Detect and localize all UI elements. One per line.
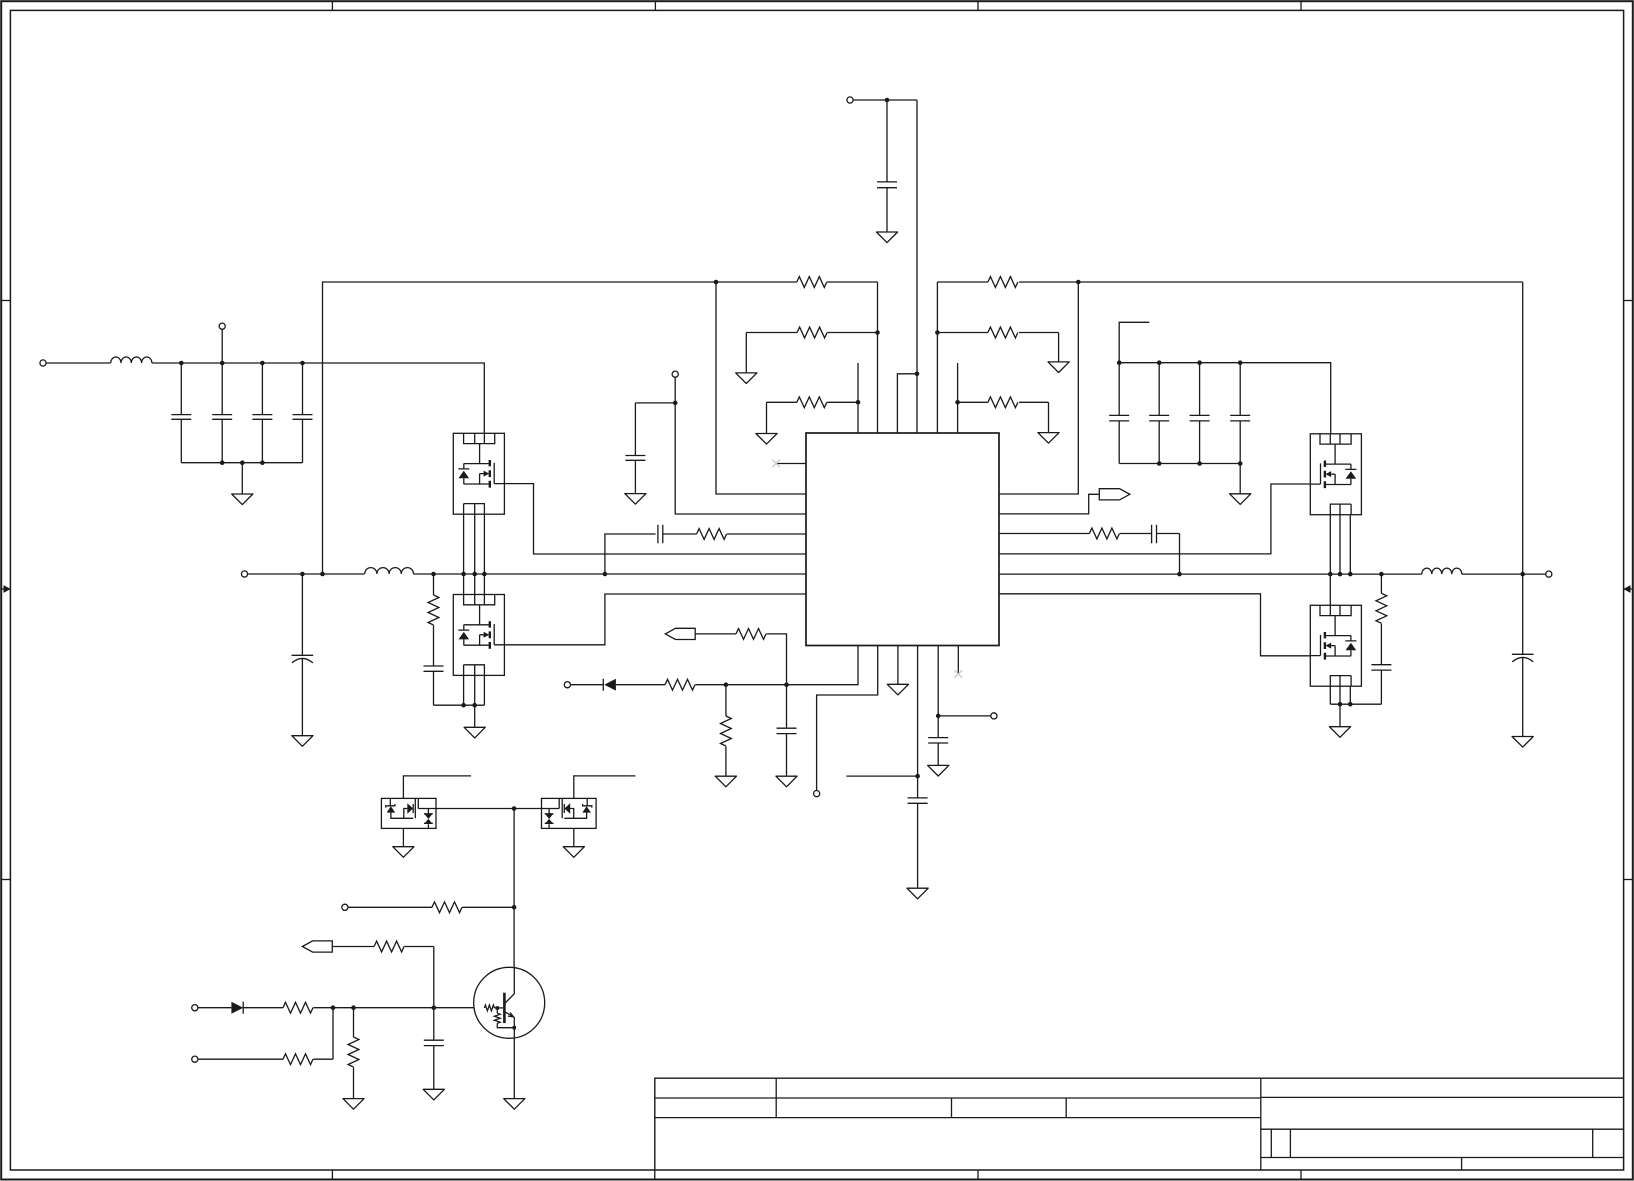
ground under R3 xyxy=(756,434,777,445)
capacitor C20 base xyxy=(424,1008,444,1090)
wire IC top pin 3 to VCC riser xyxy=(897,374,917,433)
no-connect X bottom xyxy=(955,670,963,677)
capacitor C4 xyxy=(252,363,272,463)
title block left rows xyxy=(655,1078,1261,1117)
wire C9 to ground xyxy=(634,460,636,493)
ground C20 xyxy=(423,1089,444,1100)
junction bank2 d xyxy=(1238,360,1243,365)
ground R10 xyxy=(715,776,736,787)
ground D3 xyxy=(563,847,584,858)
wire IC bottom pin 5 branch xyxy=(938,646,991,716)
wire C13 to bus xyxy=(1157,534,1180,575)
terminal P4 SW1 out xyxy=(241,571,247,577)
junction pin4 node xyxy=(915,774,920,779)
terminal P6 comp input xyxy=(564,682,570,688)
ground Q5 emitter xyxy=(504,1099,525,1110)
junction VIN C4 xyxy=(260,361,265,366)
capacitor C12 xyxy=(928,716,948,766)
terminal P7 xyxy=(814,791,820,797)
junction bus C7 xyxy=(300,572,305,577)
wire base line xyxy=(313,1007,474,1009)
border zone tick bottom 1 xyxy=(331,1170,333,1180)
wire Q2 source to ground xyxy=(474,705,476,727)
wire IC right pin PGOOD xyxy=(999,494,1099,514)
border center arrow left xyxy=(1,585,11,593)
junction VIN C5 xyxy=(300,361,305,366)
border zone tick left 1 xyxy=(1,300,10,302)
ground cap bank2 xyxy=(1230,494,1251,505)
ground under C1 xyxy=(876,232,897,243)
wire IC bottom pin 4 riser xyxy=(917,646,919,777)
wire C8 to R8 xyxy=(663,533,697,535)
wire IC bottom pin 3 ground stub xyxy=(897,646,899,685)
resistor R17 xyxy=(283,1054,313,1065)
junction Q2 source a xyxy=(461,703,466,708)
terminal P11 input a xyxy=(192,1005,198,1011)
ground under R2 xyxy=(736,373,757,384)
terminal P8 xyxy=(991,713,997,719)
junction gnd bus 2 xyxy=(240,460,245,465)
ground input caps xyxy=(232,494,253,505)
net flag PGOOD xyxy=(1099,489,1130,500)
wire IC comp2 xyxy=(999,533,1089,535)
junction bus Q1a xyxy=(461,572,466,577)
junction bank2 c xyxy=(1197,360,1202,365)
wire bank2 gnd drop xyxy=(1239,464,1241,494)
capacitor C7 output electrolytic phase1 xyxy=(292,574,314,736)
junction base a xyxy=(331,1005,336,1010)
terminal P2 VIN xyxy=(40,360,46,366)
border zone tick top 4 xyxy=(1300,1,1302,10)
diode D4 xyxy=(231,1002,243,1014)
wire Q1 source pins xyxy=(464,514,485,574)
wire D3 output rail xyxy=(514,808,541,810)
junction R2 right xyxy=(875,330,880,335)
wire phase1 output bus right xyxy=(414,573,807,575)
net flag ILIM xyxy=(665,628,695,639)
transistor Q4 low-side FET phase2 xyxy=(1310,605,1361,686)
wire R17 up to base xyxy=(313,1008,333,1059)
junction collector node xyxy=(512,905,517,910)
resistor R15 xyxy=(374,941,404,952)
resistor R16 xyxy=(283,1002,313,1013)
wire D1 to R9 xyxy=(616,684,665,686)
resistor R18 base pulldown xyxy=(348,1008,359,1099)
wire R14 to collector node xyxy=(462,906,514,908)
capacitor C2 xyxy=(171,363,191,463)
wire Q2 drain pins xyxy=(464,574,485,595)
wire phase2 bus xyxy=(999,573,1422,575)
ground Q4 source xyxy=(1329,727,1350,738)
terminal P9 VOUT2 xyxy=(1546,571,1552,577)
wire IC top pin 5 riser xyxy=(936,282,938,433)
wire R11 down to node xyxy=(766,634,786,685)
junction FB2 tap xyxy=(1076,280,1081,285)
inductor L2 xyxy=(365,568,414,574)
junction clamp node xyxy=(512,806,517,811)
op-amp U1 controller IC xyxy=(806,433,999,646)
capacitor C17 xyxy=(1230,363,1250,464)
ground Q2 source xyxy=(464,727,485,738)
wire FB1 tap to IC left pin xyxy=(716,282,806,494)
diode array D2 xyxy=(381,798,436,828)
wire D3 to ground xyxy=(573,828,575,846)
junction bus sense riser xyxy=(320,572,325,577)
capacitor C19 output electrolytic phase2 xyxy=(1512,574,1534,736)
junction bank2 a xyxy=(1117,360,1122,365)
wire IC bottom pin 2 branch xyxy=(817,646,878,791)
wire Q4 source pins xyxy=(1330,686,1350,704)
wire R6 row xyxy=(958,402,1049,432)
junction bus Q3b xyxy=(1338,572,1343,577)
ground under R5 xyxy=(1048,362,1069,373)
wire phase2 output xyxy=(1462,573,1546,575)
wire P3 to VIN bus xyxy=(221,329,223,363)
wire gnd bus drop xyxy=(241,463,243,494)
terminal P1 top bias input xyxy=(847,97,853,103)
junction comp2 tap xyxy=(1177,572,1182,577)
wire feedback net phase1 xyxy=(323,282,797,574)
terminal P3 VIN sense xyxy=(219,323,225,329)
wire R3 to ground xyxy=(766,402,768,433)
border zone tick bottom 3 xyxy=(977,1170,979,1180)
junction pin6 riser xyxy=(955,400,960,405)
junction Q4 source b xyxy=(1348,702,1353,707)
ground C9 xyxy=(625,494,646,505)
wire Q3 source pins xyxy=(1330,515,1350,574)
wire top bias net xyxy=(853,99,917,101)
wire cap bank2 top bus xyxy=(1119,363,1331,434)
wire Q4 drain pin xyxy=(1329,574,1331,605)
wire IC pin riser VCC xyxy=(916,100,918,433)
wire Q4 source tie xyxy=(1330,703,1381,705)
wire R9 to junctions xyxy=(695,684,786,686)
title block outline xyxy=(655,1078,1624,1170)
wire comp1 riser xyxy=(605,534,656,574)
wire feedback net phase2 xyxy=(937,282,1522,574)
ground IC pin 3 xyxy=(887,684,908,695)
capacitor C16 xyxy=(1190,363,1210,464)
inductor L1 xyxy=(111,357,152,363)
junction top bias xyxy=(885,98,890,103)
wire IC top pin 2 riser xyxy=(877,282,879,433)
resistor R7 snubber1 xyxy=(428,574,439,625)
wire cap bank2 label stub xyxy=(1119,322,1149,362)
resistor R5 xyxy=(988,327,1018,338)
junction base b xyxy=(351,1005,356,1010)
resistor R6 xyxy=(988,397,1018,408)
wire Q2 source tie xyxy=(434,704,485,706)
wire Q4 source ground drop xyxy=(1339,704,1341,727)
capacitor C18 snubber2 xyxy=(1371,624,1391,705)
border zone tick bottom 4 xyxy=(1300,1170,1302,1180)
capacitor C8 comp1 xyxy=(658,525,663,543)
junction R5 left xyxy=(935,330,940,335)
ground C11 xyxy=(907,888,928,899)
wire R3 row xyxy=(767,401,859,403)
wire input cap ground bus xyxy=(181,462,302,464)
wire D2 top stub xyxy=(403,776,471,799)
resistor R11 xyxy=(736,629,766,640)
resistor R8 comp1 xyxy=(697,529,727,540)
border zone tick bottom 2 xyxy=(654,1170,656,1180)
wire phase1 output bus left xyxy=(248,573,365,575)
wire R2 to ground xyxy=(745,333,747,373)
junction FB1 tap xyxy=(714,280,719,285)
border zone tick top 1 xyxy=(331,1,333,10)
wire emitter to ground xyxy=(513,1028,515,1099)
wire VIN bus xyxy=(152,363,484,433)
wire cap bank2 ground bus xyxy=(1119,463,1240,465)
junction bus Q3c xyxy=(1348,572,1353,577)
capacitor C10 xyxy=(777,685,797,777)
capacitor C3 xyxy=(212,363,232,463)
wire clamp node drop xyxy=(513,809,515,908)
net flag base drive xyxy=(302,941,332,952)
wire IC pin EN branch xyxy=(675,377,806,514)
junction C10 tap xyxy=(784,682,789,687)
junction gnd bus 3 xyxy=(260,460,265,465)
junction R10 tap xyxy=(724,682,729,687)
junction snubber2 tap xyxy=(1379,572,1384,577)
junction pin1 riser xyxy=(856,400,861,405)
wire VIN to inductor xyxy=(46,362,111,364)
transistor Q5 BRT xyxy=(474,967,545,1038)
wire IC bottom pin 6 NC stub xyxy=(957,646,959,675)
capacitor C13 comp2 xyxy=(1152,525,1157,543)
junction EN branch xyxy=(673,401,678,406)
junction base c xyxy=(432,1005,437,1010)
capacitor C11 xyxy=(908,776,928,888)
resistor R13 snubber2 xyxy=(1376,574,1387,623)
junction gnd bus 1 xyxy=(220,460,225,465)
wire P6 to diode D1 xyxy=(571,684,604,686)
ground D2 xyxy=(393,847,414,858)
wire FB2 tap to IC right pin xyxy=(999,282,1078,494)
ground C7 xyxy=(292,736,313,747)
resistor R1 xyxy=(797,277,827,288)
wire flag to R11 xyxy=(695,633,736,635)
resistor R14 xyxy=(432,902,462,913)
junction bus Q1b xyxy=(472,572,477,577)
transistor Q2 low-side FET phase1 xyxy=(453,595,504,676)
junction bus Q1c xyxy=(482,572,487,577)
junction Q2 source b xyxy=(472,703,477,708)
ground C12 xyxy=(928,765,949,776)
wire R15 to base node xyxy=(404,947,433,1008)
border zone tick right 1 xyxy=(1624,300,1633,302)
junction comp1 tap xyxy=(603,572,608,577)
resistor R10 pulldown xyxy=(721,685,732,777)
title block divider xyxy=(1260,1078,1262,1170)
transistor Q3 high-side FET phase2 xyxy=(1310,434,1361,515)
junction bank2 gnd c xyxy=(1197,461,1202,466)
wire R2 row xyxy=(746,332,877,334)
junction bus Q3a xyxy=(1328,572,1333,577)
wire Q4 gate to IC xyxy=(999,594,1310,656)
wire P12 to R17 xyxy=(198,1058,283,1060)
junction snubber1 tap xyxy=(431,572,436,577)
title block right rows xyxy=(1261,1097,1624,1170)
wire IC top pin 1 stub xyxy=(857,363,859,433)
ground under R6 xyxy=(1038,433,1059,444)
junction bank2 gnd d xyxy=(1238,461,1243,466)
wire EN cap branch xyxy=(635,403,675,456)
wire Q1 gate to IC xyxy=(504,484,806,554)
capacitor C14 xyxy=(1109,363,1129,464)
junction VOUT2 node xyxy=(1520,572,1525,577)
border zone tick top 3 xyxy=(977,1,979,10)
wire D3 top stub xyxy=(574,776,636,799)
terminal P5 enable xyxy=(672,371,678,377)
wire IC top pin 6 stub xyxy=(957,363,959,433)
wire Q3 gate to IC xyxy=(999,484,1310,554)
wire to capacitor C1 xyxy=(886,100,888,182)
terminal P12 input b xyxy=(192,1056,198,1062)
capacitor C6 snubber1 xyxy=(424,625,444,705)
resistor R3 xyxy=(797,397,827,408)
wire R8 to IC xyxy=(727,533,806,535)
wire P11 to D4 xyxy=(198,1007,232,1009)
diode D1 xyxy=(603,679,616,691)
wire Q2 source pins xyxy=(464,675,485,705)
terminal P10 drive input xyxy=(342,904,348,910)
wire D4 to R16 xyxy=(243,1007,283,1009)
ground C10 xyxy=(776,776,797,787)
junction bank2 b xyxy=(1157,360,1162,365)
resistor R12 comp2 xyxy=(1089,528,1119,539)
wire R5 row xyxy=(937,333,1058,362)
wire collector drop xyxy=(513,907,515,967)
wire P10 to R14 xyxy=(348,906,432,908)
transistor Q1 high-side FET phase1 xyxy=(453,433,504,514)
wire pin4 label stub xyxy=(846,775,917,777)
border center arrow right xyxy=(1623,585,1633,593)
wire D2 to ground xyxy=(402,828,404,846)
junction VCC riser xyxy=(915,372,920,377)
border zone tick top 2 xyxy=(654,1,656,10)
inductor L3 xyxy=(1422,568,1462,574)
wire IC NC stub left xyxy=(776,463,806,465)
wire Q2 gate to IC xyxy=(504,594,806,645)
wire flag to R15 xyxy=(333,946,374,948)
wire D2 output rail xyxy=(436,808,514,810)
ground C19 xyxy=(1512,737,1533,748)
resistor R9 xyxy=(665,679,695,690)
junction VIN C3 xyxy=(220,361,225,366)
junction Q4 source a xyxy=(1338,702,1343,707)
wire R12 to C13 xyxy=(1120,533,1152,535)
ground R18 xyxy=(343,1099,364,1110)
capacitor C5 xyxy=(293,363,313,463)
junction pin5 node xyxy=(936,714,941,719)
border zone tick left 2 xyxy=(1,879,10,881)
diode array D3 xyxy=(542,798,597,828)
resistor R2 xyxy=(797,327,827,338)
capacitor C1 xyxy=(877,182,897,188)
wire R1 to riser xyxy=(827,281,877,283)
wire IC bottom pin 1 branch xyxy=(787,646,859,685)
no-connect X left xyxy=(772,460,780,467)
junction bank2 gnd b xyxy=(1157,461,1162,466)
capacitor C15 xyxy=(1149,363,1169,464)
resistor R4 xyxy=(988,277,1018,288)
wire C1 to ground xyxy=(886,188,888,232)
border zone tick right 2 xyxy=(1624,879,1633,881)
capacitor C9 xyxy=(625,456,645,461)
junction VIN C2 xyxy=(179,361,184,366)
